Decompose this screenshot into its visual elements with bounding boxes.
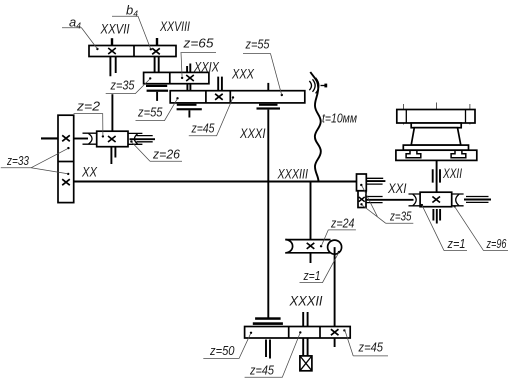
leader z=55 top	[243, 54, 282, 95]
gear z=55 under B2 left cell	[146, 85, 167, 87]
bevel gear left of z=2 box	[83, 133, 97, 144]
svg-text:XX: XX	[81, 165, 98, 180]
leader z=1 right	[422, 205, 467, 250]
clutch X z=2	[108, 136, 116, 142]
wire shaft XXVII down to z=2 box	[111, 94, 113, 131]
clutch X on drum	[307, 243, 315, 249]
motor coupling box	[300, 356, 312, 371]
lower selector box shaft XXI	[358, 191, 366, 208]
T-slot right	[451, 151, 466, 158]
centerline right	[469, 104, 471, 125]
clutch X bottom box	[331, 329, 339, 335]
table neck	[411, 123, 461, 128]
svg-text:z=35: z=35	[110, 78, 135, 93]
wire stem below left gear	[188, 110, 190, 117]
svg-text:z=96: z=96	[486, 236, 507, 251]
svg-text:XXII: XXII	[442, 166, 462, 181]
gear pair below XXVII	[110, 57, 115, 76]
reverse clutch box z=2	[97, 131, 128, 147]
worm z=1 circle	[328, 240, 342, 254]
table base	[396, 150, 477, 160]
gearbox block B2 shaft XXIX	[144, 72, 209, 83]
shaft XXII vertical	[436, 160, 438, 192]
feed selector box on shaft XX end	[357, 174, 367, 191]
shaft XXI horizontal	[366, 199, 413, 201]
gear lines below table gearbox	[433, 209, 440, 224]
gear z=50 above bottom box	[255, 317, 281, 320]
wire divider B3b	[229, 91, 231, 103]
leader z=35 right fork	[362, 186, 414, 224]
wire divider B3a	[205, 91, 207, 103]
leader b4	[112, 16, 151, 49]
leader z=96	[455, 207, 508, 251]
svg-text:z=45: z=45	[249, 362, 274, 377]
gear pair below bottom box center	[303, 338, 307, 356]
svg-text:XXXII: XXXII	[289, 294, 323, 309]
T-slot left	[406, 151, 421, 158]
splined shaft z=26 output	[137, 136, 153, 142]
gear lines above XXIX clutch	[187, 64, 190, 73]
gear under B3 right cell	[259, 104, 278, 106]
leader z=55 left	[136, 99, 178, 121]
gearbox block B1 shafts XXVII/XXVIII	[89, 46, 176, 57]
clutch X small	[359, 197, 365, 202]
shaft XXXI stub above B3	[267, 83, 269, 91]
svg-text:z=45: z=45	[358, 340, 384, 355]
svg-text:z=45: z=45	[191, 121, 215, 136]
centerline left	[403, 104, 405, 125]
svg-text:t=10мм: t=10мм	[322, 111, 357, 126]
svg-text:z=55: z=55	[245, 37, 270, 52]
svg-text:XXIX: XXIX	[193, 60, 220, 75]
wire divider bottom a	[288, 327, 290, 339]
wire divider tall box	[58, 161, 74, 163]
wire divider B2	[169, 72, 171, 83]
splined shaft z=96 output	[466, 197, 489, 203]
svg-text:XXXI: XXXI	[239, 126, 266, 141]
svg-text:XXX: XXX	[231, 67, 255, 82]
svg-text:z=1: z=1	[303, 268, 321, 283]
gear pair above XXX clutch	[218, 77, 222, 91]
shaft stub above XXVII	[111, 38, 113, 45]
leader z=65	[181, 53, 217, 78]
leader z=45 mid	[189, 98, 233, 136]
clutch X on shaft XXIX	[186, 75, 194, 81]
wire vertical from worm down	[334, 247, 336, 347]
leader z=2	[74, 114, 103, 136]
gear pair below XXIX clutch	[187, 84, 190, 91]
table gearbox z=1/z=96	[420, 192, 452, 207]
gear pair on shaft XXII	[433, 169, 440, 182]
clutch X on shaft XXX	[215, 94, 223, 100]
table top bar end caps	[406, 110, 465, 124]
leader z=50	[203, 333, 251, 358]
leader a4	[62, 28, 97, 49]
svg-text:z=35: z=35	[389, 209, 412, 224]
svg-text:z=33: z=33	[6, 153, 29, 168]
wire drum shaft upper	[310, 182, 312, 240]
svg-text:XXVII: XXVII	[100, 22, 130, 37]
svg-text:XXXIII: XXXIII	[277, 166, 308, 181]
svg-text:z=50: z=50	[209, 343, 235, 358]
clutch X on shaft XXVII	[108, 48, 116, 54]
gear pair below bottom box left	[266, 340, 270, 359]
centerline center	[436, 103, 438, 161]
leader z=45 bottom right	[345, 329, 388, 356]
wire shaft to bevel	[74, 138, 88, 140]
table assembly top	[396, 103, 477, 161]
bevel gear right of z=2 box	[128, 133, 142, 144]
clutch X table gearbox	[432, 197, 440, 203]
gearbox block B3 shaft XXX	[170, 91, 305, 103]
clutch X on shaft XXVIII	[152, 48, 160, 54]
svg-text:z=2: z=2	[76, 99, 101, 114]
wire input shaft left	[41, 137, 58, 139]
svg-text:XXI: XXI	[387, 181, 407, 196]
saddle plate	[403, 145, 468, 150]
table top bar	[397, 110, 475, 124]
wire drum shaft lower	[310, 253, 312, 263]
leader dots	[67, 48, 456, 334]
leader z=45 bottom mid	[245, 333, 301, 377]
leader z=35 left	[106, 79, 150, 94]
handwheel symbol on leadscrew	[309, 81, 311, 90]
bevel gear left of table gearbox	[409, 194, 421, 206]
table pedestal trapezoid	[411, 128, 461, 145]
svg-text:z=24: z=24	[330, 216, 354, 231]
leader z=1 drum	[300, 252, 339, 282]
svg-text:z=55: z=55	[137, 105, 163, 120]
worm drum z=24	[285, 240, 330, 253]
svg-text:XXVIII: XXVIII	[159, 19, 190, 34]
wire divider B1	[133, 46, 135, 57]
shaft XX long horizontal with XXXIII	[74, 180, 357, 182]
svg-text:z=26: z=26	[152, 147, 181, 162]
bottom gearbox shaft XXXII	[245, 327, 351, 339]
feed box (tall) with two clutches z=33	[58, 115, 74, 202]
gear pair below XXVIII	[155, 57, 159, 72]
leadscrew wavy line t=10mm	[310, 72, 321, 182]
shaft stub above XXVIII	[156, 38, 158, 46]
gear pair below z=2 box	[111, 147, 115, 164]
wire divider bottom b	[319, 327, 321, 339]
leader z=33 fork	[1, 148, 68, 173]
leader z=24	[321, 230, 356, 246]
wire stem below z=55 gear	[156, 92, 158, 101]
clutch X lower	[62, 179, 70, 185]
splines right of lower selector	[366, 197, 382, 203]
svg-text:z=1: z=1	[447, 236, 466, 251]
splines right of upper selector	[367, 178, 384, 184]
clutch X upper	[62, 135, 70, 141]
gear pair above bottom box center	[303, 312, 307, 327]
leader z=26	[132, 142, 182, 161]
svg-text:z=65: z=65	[182, 36, 214, 51]
bevel gear right of table gearbox	[452, 194, 464, 206]
shaft XXXI vertical	[267, 110, 269, 318]
gear under B3 left cell	[177, 104, 197, 106]
